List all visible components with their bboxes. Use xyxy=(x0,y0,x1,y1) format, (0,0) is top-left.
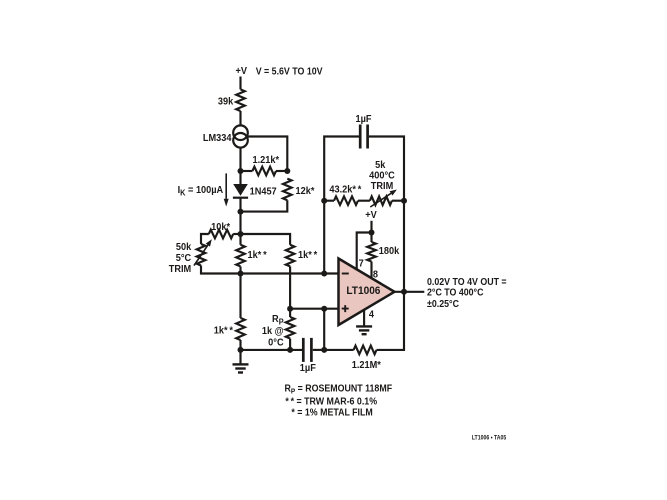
node +V supply label xyxy=(235,66,247,77)
label note Rp xyxy=(285,383,393,396)
node I Rp bottom xyxy=(287,347,293,353)
node E minus rail xyxy=(238,271,244,277)
wire +V stub xyxy=(370,221,372,233)
label pin 4 xyxy=(369,309,375,320)
node H Rp top xyxy=(287,306,293,312)
resistor 1k** third xyxy=(236,318,245,340)
wire LM334 to 12k branch xyxy=(248,137,287,172)
svg-text:LM334: LM334 xyxy=(203,132,232,143)
wire 12k to node C xyxy=(241,200,288,211)
wire ground node to cap xyxy=(241,349,303,351)
svg-text:4: 4 xyxy=(369,309,375,320)
label 1k** first xyxy=(248,250,267,261)
label 43.2k** xyxy=(329,184,361,195)
wire LM334 to node A xyxy=(239,148,241,171)
wire 39k to LM334 xyxy=(239,111,241,125)
ground symbol left xyxy=(233,350,249,373)
label 1.21k* xyxy=(253,154,280,165)
svg-text:LT1006: LT1006 xyxy=(346,285,380,297)
label TRIM left xyxy=(169,263,191,274)
svg-text:8: 8 xyxy=(373,269,379,280)
svg-text:43.2k* *: 43.2k* * xyxy=(329,184,361,195)
wire 5k to right column xyxy=(392,200,404,202)
node D xyxy=(238,231,244,237)
wire fb node to 43.2k xyxy=(324,200,334,202)
label 1k** third xyxy=(214,325,233,336)
svg-text:V = 5.6V TO 10V: V = 5.6V TO 10V xyxy=(256,66,323,78)
label Rp xyxy=(272,314,284,327)
node B xyxy=(284,168,290,174)
wire R 1.21k to node B xyxy=(276,170,287,172)
resistor 43.2k** xyxy=(334,196,358,205)
label 50k xyxy=(176,242,192,253)
label Ik current xyxy=(178,185,224,198)
wire 10k left elbow xyxy=(201,234,209,244)
current arrow Ik xyxy=(224,173,229,206)
label LT1006 xyxy=(346,285,380,297)
label pin 7 xyxy=(359,258,364,269)
svg-text:TRIM: TRIM xyxy=(169,263,191,274)
svg-text:2°C TO 400°C: 2°C TO 400°C xyxy=(427,287,484,299)
svg-text:LT1006 • TA05: LT1006 • TA05 xyxy=(472,435,507,442)
svg-text:1.21k*: 1.21k* xyxy=(253,154,280,165)
label 5degC xyxy=(176,253,191,264)
svg-text:10k*: 10k* xyxy=(211,221,230,232)
svg-text:1N457: 1N457 xyxy=(250,186,277,197)
label 1.21M* xyxy=(352,360,381,371)
svg-text:1k @: 1k @ xyxy=(262,326,284,337)
svg-text:5k: 5k xyxy=(375,159,386,170)
node O fb right xyxy=(401,198,407,204)
wire minus rail to 1k 3 xyxy=(239,274,241,319)
op-amp U1 LT1006 xyxy=(339,259,395,326)
svg-text:1k* *: 1k* * xyxy=(248,250,267,261)
label note starstar xyxy=(285,396,377,408)
label note star xyxy=(291,407,372,419)
wire plus rail xyxy=(290,308,338,310)
label 400degC xyxy=(369,170,395,181)
label pin 8 xyxy=(373,269,379,280)
resistor 1.21k* xyxy=(252,167,276,176)
label output line1 xyxy=(427,276,507,288)
resistor 10k* trim xyxy=(209,230,233,239)
wire cap top to right column xyxy=(369,137,404,201)
wire minus rail xyxy=(241,272,339,274)
wire 1k 3 to ground node xyxy=(239,340,241,350)
label 1uF bottom xyxy=(300,363,316,374)
svg-text:+V: +V xyxy=(365,210,377,221)
wire feedback left column xyxy=(324,137,359,274)
current source LM334 xyxy=(233,125,248,147)
resistor 1k** first xyxy=(236,245,245,267)
resistor 12k* xyxy=(283,179,292,201)
wire output xyxy=(395,291,425,293)
svg-text:1.21M*: 1.21M* xyxy=(352,360,381,371)
label +V opamp xyxy=(365,210,377,221)
node J plus rail cap junction xyxy=(321,306,327,312)
svg-text:TRIM: TRIM xyxy=(371,180,393,191)
svg-text:180k: 180k xyxy=(379,245,400,256)
resistor 1.21M* xyxy=(354,346,377,355)
wire node A to diode xyxy=(239,171,241,184)
node N fb left xyxy=(321,198,327,204)
potentiometer 5k 400C TRIM xyxy=(370,190,397,208)
capacitor 1uF top xyxy=(360,125,367,149)
svg-text:1k* *: 1k* * xyxy=(214,325,233,336)
label 1uF top xyxy=(355,114,371,125)
svg-text:* = 1% METAL FILM: * = 1% METAL FILM xyxy=(291,407,372,419)
svg-text:7: 7 xyxy=(359,258,364,269)
node K xyxy=(321,347,327,353)
wire 43.2k to 5k xyxy=(358,200,370,202)
node F minus input xyxy=(321,271,327,277)
label figure number xyxy=(472,435,507,442)
wire node K to R 1.21M xyxy=(324,349,353,351)
wire 1.21M to output column xyxy=(377,292,405,350)
wire pin 7 xyxy=(357,233,372,271)
label 1k at xyxy=(262,326,284,337)
wire 10k to node D xyxy=(233,233,240,235)
label 180k xyxy=(379,245,400,256)
wire node D to 1k 1 xyxy=(239,234,241,245)
node L vplus xyxy=(369,230,375,236)
potentiometer 50k 5C TRIM xyxy=(194,239,212,265)
wire 1k 2 to Rp node crossover xyxy=(289,266,291,308)
svg-text:0°C: 0°C xyxy=(268,337,283,348)
wire cap junction down xyxy=(323,309,325,350)
label LM334 xyxy=(203,132,232,143)
label 0degC xyxy=(268,337,283,348)
label 5k xyxy=(375,159,386,170)
svg-text:50k: 50k xyxy=(176,242,192,253)
svg-text:1µF: 1µF xyxy=(355,114,371,125)
label 39k xyxy=(218,96,234,107)
svg-text:1k* *: 1k* * xyxy=(298,250,317,261)
op-amp minus sign xyxy=(342,273,349,275)
node C xyxy=(238,209,244,215)
svg-text:12k*: 12k* xyxy=(296,186,315,197)
label 10k* xyxy=(211,221,230,232)
wire Rp top lead xyxy=(289,309,291,317)
op-amp plus sign xyxy=(342,305,349,312)
resistor 180k xyxy=(367,242,376,262)
svg-text:RP = ROSEMOUNT 118MF: RP = ROSEMOUNT 118MF xyxy=(285,383,393,396)
capacitor 1uF bottom xyxy=(303,338,311,362)
label 1k** second xyxy=(298,250,317,261)
ground symbol opamp xyxy=(356,326,372,334)
wire 50k to bottom rail xyxy=(201,266,241,274)
wire Rp bottom lead xyxy=(289,339,291,350)
label TRIM right xyxy=(371,180,393,191)
label supply range xyxy=(256,66,323,78)
wire right column mid xyxy=(403,201,405,292)
node G ground rail xyxy=(238,347,244,353)
label output line2 xyxy=(427,287,484,299)
wire node D to 1k branch 2 xyxy=(241,234,291,245)
svg-text:+V: +V xyxy=(235,66,247,77)
wire pin 4 xyxy=(363,311,365,326)
wire node C to node D xyxy=(239,212,241,234)
label 1N457 xyxy=(250,186,277,197)
svg-text:5°C: 5°C xyxy=(176,253,191,264)
resistor 1k** second xyxy=(286,245,295,267)
svg-text:±0.25°C: ±0.25°C xyxy=(427,299,459,311)
wire node A to R 1.21k xyxy=(241,170,253,172)
label 12k* xyxy=(296,186,315,197)
wire pin 8 xyxy=(370,262,372,280)
node A xyxy=(238,168,244,174)
diode 1N457 xyxy=(233,184,248,198)
label output line3 xyxy=(427,299,459,311)
wire diode to node C xyxy=(239,198,241,212)
wire cap to node K xyxy=(313,349,324,351)
wire vplus to 180k xyxy=(370,233,372,243)
node M output xyxy=(401,289,407,295)
svg-text:39k: 39k xyxy=(218,96,234,107)
resistor 39k xyxy=(236,89,245,111)
svg-text:1µF: 1µF xyxy=(300,363,316,374)
wire +V to R 39k xyxy=(239,77,241,90)
resistor Rp xyxy=(286,317,295,339)
wire 1k 1 to minus rail xyxy=(239,266,241,273)
